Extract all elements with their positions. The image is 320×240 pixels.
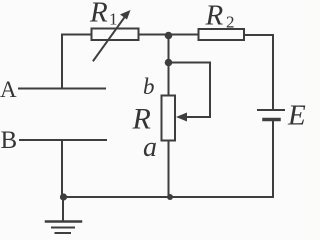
svg-text:E: E [287, 100, 306, 132]
svg-text:A: A [0, 77, 17, 102]
svg-text:R: R [205, 0, 224, 32]
svg-text:a: a [143, 132, 157, 163]
svg-text:2: 2 [226, 13, 235, 32]
svg-text:1: 1 [109, 10, 118, 29]
svg-text:R: R [132, 103, 151, 136]
svg-text:R: R [89, 0, 108, 29]
svg-text:B: B [1, 127, 18, 154]
svg-text:b: b [143, 74, 155, 99]
